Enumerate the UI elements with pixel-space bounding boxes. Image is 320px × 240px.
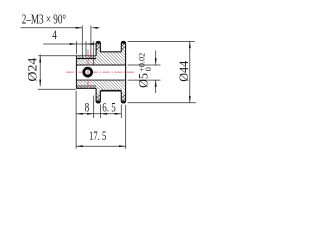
section hatching: flange top band	[96, 52, 126, 65]
pulley outline: bottom-left flange ear	[96, 88, 100, 103]
dim 17.5 arrow right	[119, 145, 126, 147]
leader line for 2-M3	[21, 27, 82, 29]
extension line above hub face x76.4	[75, 41, 77, 54]
dim 4 arrow right-pointing at x76.4	[70, 43, 77, 45]
dim 6.5 arrow left-pointing at x100.4	[100, 113, 107, 115]
svg-text:Ø44: Ø44	[176, 60, 191, 81]
dim Ø44 arrow down	[189, 96, 191, 103]
extra hatch strokes in ears	[96, 43, 125, 102]
svg-text:0: 0	[144, 67, 153, 71]
red centerline: M3 hole axis	[87, 50, 89, 91]
right extension line x125.7 below part	[125, 105, 127, 149]
dim 8 arrow right-pointing at x93.7	[87, 113, 94, 115]
pulley outline: hub top edge	[76, 55, 96, 57]
pulley outline: belt surface bottom	[100, 90, 121, 92]
section hatching: top-right flange ear	[121, 42, 125, 52]
svg-text:6. 5: 6. 5	[102, 100, 116, 115]
dim Ø44 dimension line	[189, 41, 191, 102]
section hatching: bottom-right flange ear	[121, 91, 125, 102]
dim Ø5 arrow down	[155, 58, 157, 65]
dim Ø5 bottom extension line	[128, 79, 161, 81]
dim Ø24 arrow up	[39, 56, 41, 63]
pulley outline: top-left flange ear	[96, 41, 100, 55]
dim 8 right extension line	[93, 96, 95, 119]
dim line for 8 and 6.5	[76, 113, 121, 115]
dim 6.5 left extension line	[99, 105, 101, 119]
bore line top	[76, 64, 125, 66]
dim 6.5 arrow right-pointing at x121.3	[115, 113, 122, 115]
flange ear solid caps	[96, 41, 126, 103]
pulley outline: right face	[125, 43, 127, 101]
leader arrow tail	[97, 27, 100, 29]
dim Ø5 dimension line lower segment	[155, 80, 157, 93]
svg-text:Ø5: Ø5	[136, 73, 150, 88]
section hatching: bottom-left flange ear	[96, 91, 100, 102]
pulley outline: bottom-right flange ear	[121, 91, 125, 103]
left extension line x76.1 below part	[75, 91, 77, 149]
section hatching: hub bottom band	[77, 80, 97, 88]
pulley outline: hub left face	[75, 56, 77, 89]
dim 6.5 right extension line	[120, 105, 122, 119]
red centerline: pulley axis	[66, 71, 136, 73]
dim 17.5 arrow left	[76, 145, 83, 147]
dim Ø5 top extension line	[128, 64, 161, 66]
svg-text:4: 4	[52, 27, 57, 42]
dim Ø24 bottom extension line	[38, 88, 76, 90]
pulley outline: belt surface top	[100, 51, 121, 53]
hub chamfer line top	[76, 58, 96, 60]
dim Ø24 arrow down	[39, 80, 41, 87]
leader arrow left-pointing at x91	[91, 27, 98, 29]
dim 4 line	[43, 43, 96, 45]
dim Ø5 arrow up	[155, 80, 157, 87]
bore line bottom	[76, 79, 125, 81]
svg-text:17. 5: 17. 5	[89, 128, 106, 143]
M3 countersink edge left	[81, 26, 83, 59]
dim 17.5 line	[76, 145, 126, 147]
pulley outline: top-right flange ear	[121, 41, 125, 51]
dim 4 arrow left-pointing at x86	[86, 43, 93, 45]
hub chamfer line bottom	[76, 85, 96, 87]
extension line x86 for dim 4	[85, 41, 87, 56]
section hatching: flange bottom band	[96, 80, 126, 90]
dim Ø5 dimension line upper segment	[155, 51, 157, 65]
svg-text:8: 8	[85, 99, 90, 114]
svg-text:2–M3 × 90°: 2–M3 × 90°	[22, 12, 66, 27]
pulley outline: hub bottom edge	[76, 87, 96, 89]
extension line x93.7 upper	[93, 41, 95, 65]
dim Ø44 arrow up	[189, 41, 191, 48]
dim Ø44 top extension line	[128, 40, 195, 42]
section hatching: top-left flange ear	[96, 42, 100, 52]
svg-text:Ø24: Ø24	[24, 57, 39, 82]
section hatching: hub top band	[77, 56, 97, 65]
dim Ø44 bottom extension line	[128, 102, 196, 104]
dim Ø24 dimension line	[39, 55, 41, 87]
M3 countersink edge right	[90, 26, 92, 59]
dim Ø24 top extension line	[38, 55, 76, 57]
leader arrow right-pointing at x82.3	[76, 27, 83, 29]
set screw hole circle	[84, 68, 92, 76]
dim 8 arrow left-pointing at x76.1	[76, 113, 83, 115]
